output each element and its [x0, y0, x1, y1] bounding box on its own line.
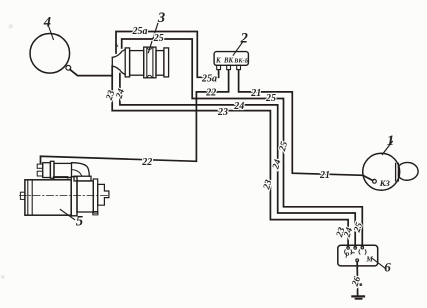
svg-text:24: 24: [114, 87, 127, 100]
svg-text:23: 23: [262, 179, 274, 192]
svg-text:2: 2: [240, 31, 248, 47]
svg-text:21: 21: [319, 170, 330, 181]
svg-text:25: 25: [265, 93, 276, 104]
svg-text:1: 1: [387, 133, 394, 149]
svg-text:ВК-Б: ВК-Б: [233, 57, 248, 64]
svg-text:6: 6: [384, 260, 391, 275]
svg-text:4: 4: [43, 15, 51, 31]
svg-text:25: 25: [153, 33, 164, 44]
svg-text:5: 5: [76, 214, 83, 230]
svg-text:ВК: ВК: [223, 57, 234, 64]
svg-text:26: 26: [350, 275, 363, 288]
svg-text:24: 24: [233, 101, 244, 112]
svg-text:М: М: [365, 254, 373, 263]
svg-text:КЗ: КЗ: [379, 178, 391, 188]
svg-text:23: 23: [217, 107, 228, 118]
svg-text:25а: 25а: [201, 73, 217, 84]
svg-text:24: 24: [271, 158, 283, 171]
svg-text:3: 3: [157, 10, 165, 26]
svg-text:25а: 25а: [132, 26, 148, 37]
svg-text:22: 22: [205, 87, 216, 98]
svg-text:25: 25: [352, 221, 365, 234]
svg-text:р: р: [345, 251, 350, 258]
svg-text:25: 25: [278, 140, 290, 153]
svg-text:22: 22: [141, 157, 152, 168]
svg-text:к: к: [116, 43, 119, 49]
svg-text:21: 21: [250, 88, 261, 99]
svg-text:К: К: [215, 57, 221, 64]
